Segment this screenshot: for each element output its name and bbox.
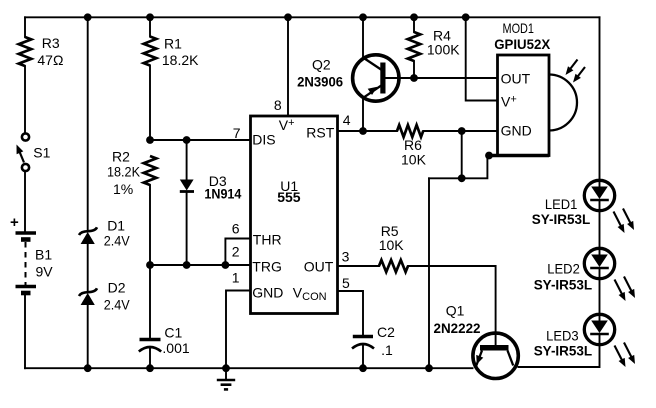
wire R2 to TRG node	[149, 185, 151, 265]
label R2 18.2K 1% value	[107, 149, 141, 198]
svg-text:.001: .001	[162, 340, 189, 356]
svg-text:8: 8	[274, 97, 282, 113]
wire jog down to bottom rail	[428, 178, 430, 368]
svg-text:SY-IR53L: SY-IR53L	[534, 343, 593, 359]
wire pin 3 OUT to R5	[338, 265, 380, 267]
svg-text:OUT: OUT	[501, 71, 531, 87]
resistor R4	[408, 32, 421, 61]
node junction bottom rail / jog	[425, 364, 433, 372]
IR module MOD1 GPIU52X box	[488, 55, 549, 156]
label S1	[33, 145, 50, 161]
zener diode D2	[79, 288, 97, 305]
wire pin 4 RST to R6	[338, 130, 398, 132]
label R3 47ohm value	[37, 35, 63, 68]
svg-text:Q1: Q1	[446, 303, 465, 319]
wire left rail upper segment	[24, 17, 26, 37]
svg-text:LED3: LED3	[546, 328, 579, 344]
wire C2 to bottom rail	[362, 345, 364, 368]
emission arrows LED2	[615, 277, 636, 302]
resistor R5	[379, 260, 408, 272]
wire top rail to R1	[149, 17, 151, 36]
battery B1 9V	[10, 214, 36, 293]
pin number 2	[232, 244, 240, 260]
pin label RST	[306, 125, 334, 141]
LED1 SY-IR53L	[584, 180, 614, 210]
emission arrows LED1	[614, 209, 635, 234]
svg-text:R2: R2	[112, 149, 130, 165]
node junction top rail / R4	[410, 13, 418, 21]
svg-text:18.2K: 18.2K	[162, 52, 199, 68]
pin label THR	[253, 232, 282, 248]
svg-text:Q2: Q2	[312, 57, 331, 73]
wire bottom ground rail	[25, 367, 473, 369]
svg-text:10K: 10K	[379, 237, 405, 253]
label LED1	[532, 196, 591, 227]
wire TRG pin 2	[150, 264, 251, 266]
node junction lower GND jog	[458, 174, 466, 182]
capacitor C2	[352, 337, 374, 349]
label Q1 2N2222	[434, 303, 481, 337]
wire top rail to D1	[87, 17, 89, 229]
wire pin 5 VCON to C2	[338, 291, 364, 335]
node junction top rail / MOD1 V+	[462, 13, 470, 21]
svg-text:+: +	[10, 214, 19, 231]
wire Q2 base to R4 node	[386, 77, 415, 79]
resistor R2	[144, 156, 157, 185]
svg-text:2.4V: 2.4V	[104, 297, 131, 313]
switch S1	[17, 133, 30, 171]
svg-text:555: 555	[277, 189, 301, 205]
svg-text:2: 2	[232, 244, 240, 260]
svg-text:THR: THR	[253, 232, 282, 248]
wire top rail to R4	[413, 17, 415, 32]
label R5 10K value	[379, 223, 405, 253]
node junction D3 / TRG wire	[183, 261, 191, 269]
svg-text:.1: .1	[381, 342, 393, 358]
node junction top rail / pin 8	[284, 13, 292, 21]
label C1 .001 value	[162, 325, 189, 357]
label LED3	[534, 328, 593, 359]
op-amp/timer U1 555 box	[251, 116, 338, 314]
wire bottom rail right of Q1 to LED chain	[519, 345, 600, 367]
wire battery to bottom rail	[24, 295, 26, 368]
svg-text:R1: R1	[164, 36, 182, 52]
wire R5 to Q1 base	[408, 266, 496, 345]
wire DIS node to D3	[186, 140, 188, 179]
pin label OUT (555)	[304, 259, 334, 275]
ground symbol	[217, 368, 235, 389]
wire DIS node to pin 7	[150, 139, 251, 141]
svg-text:D2: D2	[108, 280, 126, 296]
svg-text:9V: 9V	[36, 264, 54, 280]
node junction C1 / bottom rail	[146, 364, 154, 372]
node junction R6 / MOD1 GND / lower branch	[458, 127, 466, 135]
label R6 10K value	[401, 137, 427, 168]
svg-text:47Ω: 47Ω	[37, 52, 63, 68]
MOD1 lens dome	[549, 75, 577, 131]
label D1 2.4V value	[104, 218, 131, 249]
pin number 1	[232, 270, 240, 286]
wire C1 to bottom rail	[149, 348, 151, 368]
node junction R1/R2/DIS	[146, 136, 154, 144]
pin label DIS	[252, 132, 275, 148]
emission arrows LED3	[615, 343, 636, 368]
capacitor C1	[139, 340, 161, 352]
node junction C2 / bottom rail	[359, 364, 367, 372]
node junction top rail / Q2	[359, 13, 367, 21]
pin number 6	[232, 221, 240, 237]
wire R3 to S1	[24, 66, 26, 133]
label Q2 2N3906	[297, 57, 343, 90]
incoming IR arrows at MOD1	[566, 60, 586, 83]
wire pin 8 to top rail	[287, 17, 289, 116]
wire LED1 to LED2	[599, 211, 601, 249]
svg-text:5: 5	[342, 275, 350, 291]
svg-text:SY-IR53L: SY-IR53L	[532, 211, 591, 227]
pin label V+ (MOD1)	[501, 94, 517, 110]
LED2 SY-IR53L	[584, 248, 614, 278]
label D2 2.4V value	[104, 280, 131, 313]
svg-text:OUT: OUT	[304, 259, 334, 275]
node junction R2/C1/TRG wire	[146, 261, 154, 269]
node junction RST wire / Q2 collector	[359, 127, 367, 135]
pin number 3	[342, 249, 350, 265]
wire top rail to MOD1 V+ pin	[466, 17, 498, 100]
svg-text:C2: C2	[377, 324, 395, 340]
svg-text:1N914: 1N914	[204, 185, 241, 201]
node junction top rail / D1 branch	[84, 13, 92, 21]
wire TRG node down to C1	[149, 265, 151, 338]
wire R6 to MOD1 GND pin	[423, 130, 497, 132]
svg-text:GND: GND	[252, 285, 283, 301]
svg-text:C1: C1	[164, 325, 182, 341]
wire lower GND jog	[429, 156, 487, 179]
svg-text:6: 6	[232, 221, 240, 237]
svg-text:RST: RST	[306, 125, 334, 141]
pin label GND (MOD1)	[501, 123, 532, 139]
pin label OUT (MOD1)	[501, 71, 531, 87]
svg-text:1%: 1%	[113, 181, 133, 197]
wire MOD1 GND branch down	[461, 131, 463, 178]
svg-text:1: 1	[232, 270, 240, 286]
node junction MOD1 shield / bottom edge	[485, 152, 493, 160]
node junction DIS wire / D3	[183, 136, 191, 144]
label C2 .1 value	[377, 324, 395, 358]
node junction D2 branch / bottom rail	[84, 364, 92, 372]
node junction top rail / R1 branch	[146, 13, 154, 21]
wire R1 to DIS node	[149, 66, 151, 141]
svg-text:4: 4	[343, 112, 351, 128]
svg-text:100K: 100K	[427, 42, 460, 58]
svg-text:B1: B1	[35, 247, 52, 263]
wire GND pin 1 jog	[226, 291, 251, 369]
svg-text:DIS: DIS	[252, 132, 275, 148]
resistor R6	[397, 125, 423, 137]
svg-text:GPIU52X: GPIU52X	[494, 36, 551, 52]
resistor R3	[19, 37, 32, 66]
label D3 1N914 value	[204, 173, 241, 201]
label LED2	[534, 261, 593, 293]
resistor R1	[144, 37, 157, 66]
svg-text:SY-IR53L: SY-IR53L	[534, 277, 593, 293]
label R1 18.2K value	[162, 36, 199, 69]
svg-text:10K: 10K	[401, 152, 427, 168]
svg-text:LED1: LED1	[545, 196, 578, 212]
wire LED2 to LED3	[599, 279, 601, 315]
diode D3	[180, 180, 194, 192]
LED3 SY-IR53L	[584, 314, 614, 344]
wire top rail to Q2	[362, 17, 364, 58]
svg-text:LED2: LED2	[547, 261, 580, 277]
svg-text:TRG: TRG	[252, 259, 282, 275]
label B1 9V value	[35, 247, 53, 280]
svg-text:2.4V: 2.4V	[104, 233, 131, 249]
node junction R4 / Q2 base / MOD1 OUT	[410, 74, 418, 82]
pin number 4	[343, 112, 351, 128]
pin label VCON	[293, 285, 327, 304]
pin label TRG	[252, 259, 282, 275]
node junction GND / bottom rail	[222, 364, 230, 372]
wire R4 to base node	[413, 61, 415, 78]
wire right vertical from top rail to LED1	[599, 17, 601, 180]
svg-text:7: 7	[233, 125, 241, 141]
svg-text:2N3906: 2N3906	[297, 74, 343, 90]
svg-text:D1: D1	[107, 218, 125, 234]
svg-text:MOD1: MOD1	[503, 20, 535, 36]
pin number 5	[342, 275, 350, 291]
wire S1 to battery	[24, 171, 26, 232]
svg-text:R3: R3	[42, 35, 60, 51]
pin number 7	[233, 125, 241, 141]
svg-text:S1: S1	[33, 145, 50, 161]
wire D2 to bottom rail	[87, 305, 89, 368]
label R4 100K value	[427, 28, 460, 58]
transistor Q2 2N3906	[353, 55, 399, 131]
wire top supply rail	[25, 16, 600, 18]
pin number 8	[274, 97, 282, 113]
svg-text:3: 3	[342, 249, 350, 265]
node junction THR / TRG wire	[222, 261, 230, 269]
svg-text:18.2K: 18.2K	[107, 164, 141, 180]
wire D3 to TRG wire	[186, 192, 188, 266]
svg-text:2N2222: 2N2222	[434, 320, 481, 336]
label MOD1 GPIU52X	[494, 20, 551, 52]
wire base node to MOD1 OUT pin	[414, 77, 498, 79]
label U1 555	[277, 178, 301, 205]
wire D1 to D2	[87, 244, 89, 291]
transistor Q1 2N2222	[473, 333, 518, 378]
svg-text:GND: GND	[501, 123, 532, 139]
pin label V+ (555)	[279, 117, 295, 133]
pin label GND (555)	[252, 285, 283, 301]
wire THR pin 6 jog	[225, 239, 250, 266]
zener diode D1	[79, 227, 97, 244]
